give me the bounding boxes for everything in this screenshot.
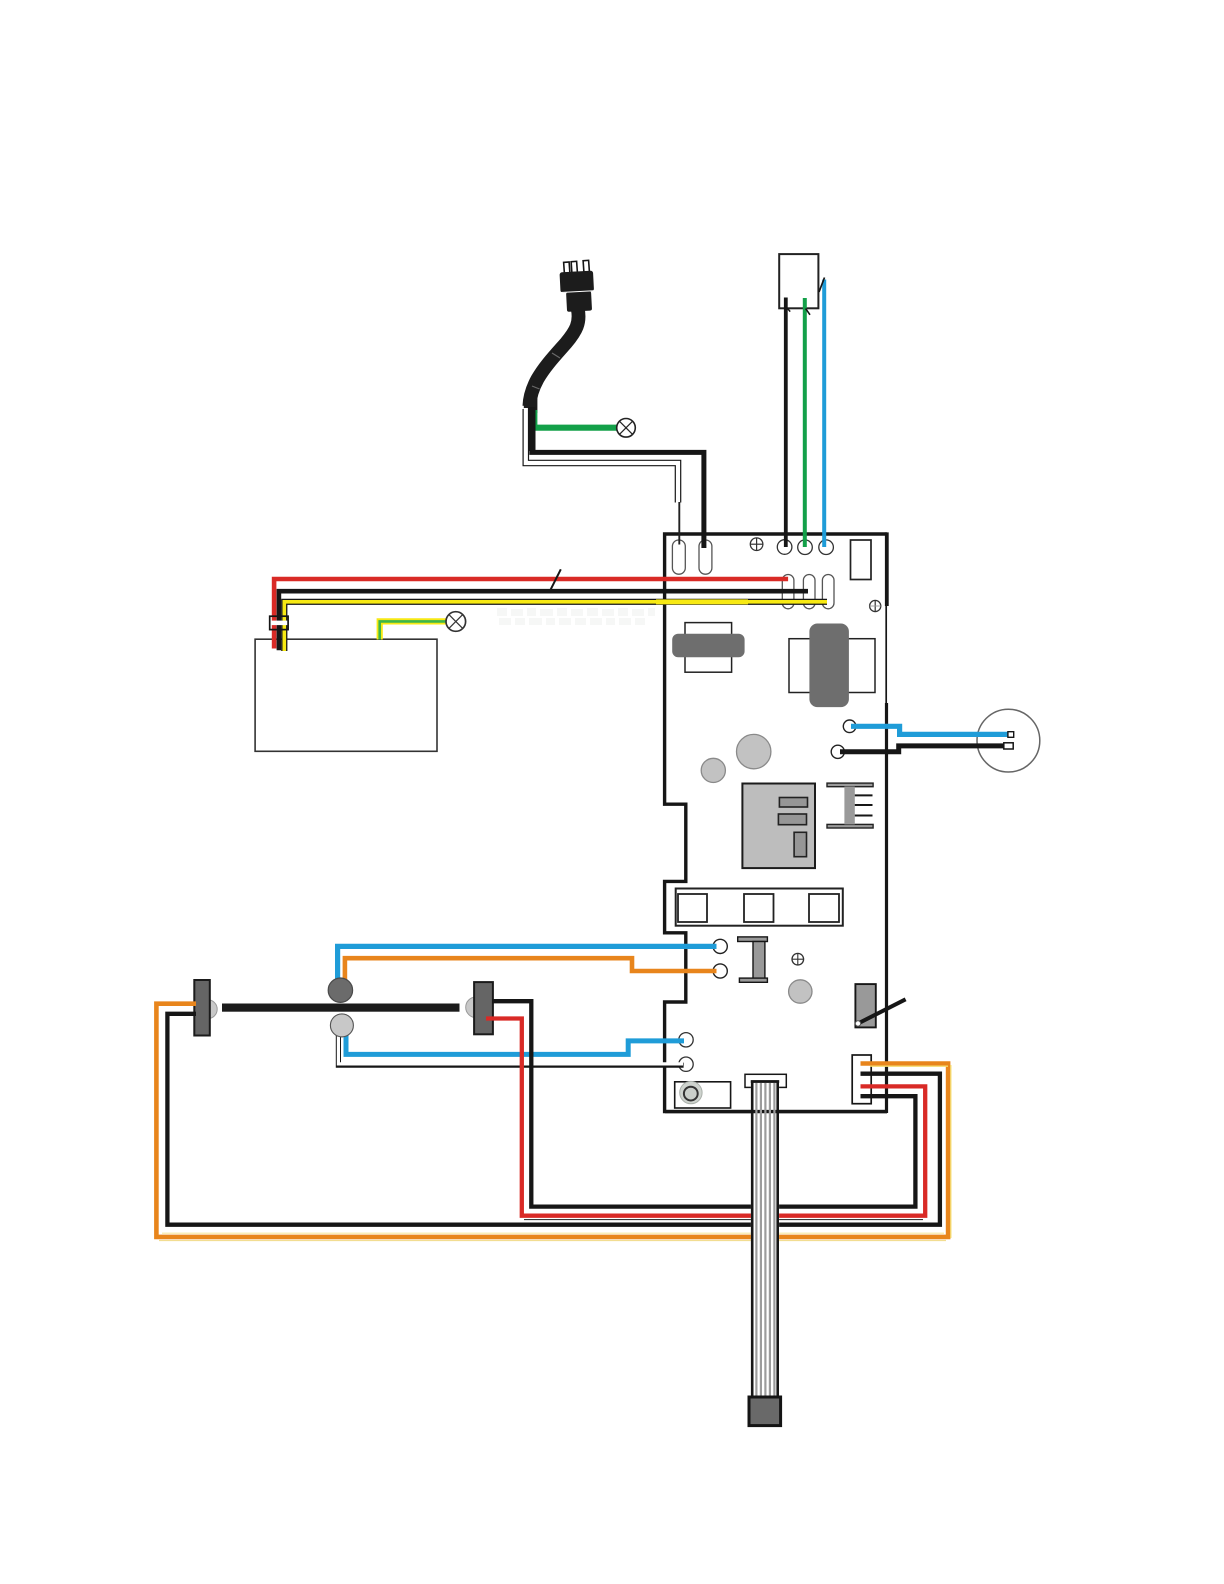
motor axle [222, 1004, 460, 1012]
yellow wire thick overlay segment [656, 599, 748, 604]
slot SL5 [822, 575, 834, 609]
slot SL2 [699, 540, 712, 574]
ribbon connector [745, 1074, 786, 1087]
white wire pad D4 to roller [338, 1034, 683, 1065]
ribbon top bar [751, 1080, 779, 1083]
connector X4 [852, 1055, 871, 1104]
gray circle C5 [789, 980, 812, 1003]
power cable [529, 309, 578, 406]
pad D1 [713, 939, 727, 953]
ribbon end cap [749, 1397, 781, 1426]
black wire tip [1004, 743, 1013, 749]
ribbon edges [751, 1081, 754, 1400]
indicator lamp L2 [446, 612, 466, 632]
red wire harness [274, 579, 788, 649]
yellow wire harness [284, 602, 827, 651]
ribbon cable background [751, 1080, 779, 1425]
screw S2 [869, 600, 881, 612]
blue wire to speaker [851, 726, 1010, 734]
ground wire yellow-green [380, 621, 446, 639]
pad A2 [798, 540, 813, 555]
board right edge middle thin [885, 606, 887, 703]
cable tip [524, 399, 538, 414]
slash mark on harness [550, 569, 561, 591]
motor left bracket [194, 980, 210, 1036]
white wire from cable to slot SL1 [526, 409, 678, 503]
speaker circle [977, 709, 1040, 772]
pad B1 [843, 720, 856, 733]
pin header P2 [827, 783, 873, 787]
encoder wheel dark [328, 978, 352, 1002]
red wire loop from right bracket [486, 1019, 925, 1216]
thick black wire from cable to slot SL2 [532, 408, 704, 548]
screw S3 [792, 953, 804, 965]
blue wire tip [1008, 732, 1014, 738]
pad D2 [713, 964, 727, 978]
power plug P1 pins [564, 260, 590, 273]
board right edge upper [885, 532, 889, 606]
indicator lamp L1 [617, 419, 636, 438]
battery box [255, 639, 437, 751]
motor right hub [466, 997, 487, 1018]
black wire J1 to pad A1 [784, 298, 788, 548]
roller wheel gray [330, 1014, 353, 1037]
blue wire pad D1 to encoder [338, 946, 717, 980]
switch SW1 body [855, 984, 875, 1027]
switch SW1 lever [858, 999, 906, 1023]
switch SW1 pivot [855, 1021, 860, 1026]
motor left hub [198, 1000, 217, 1019]
power plug P1 body [557, 271, 597, 313]
connector J1 [779, 254, 818, 308]
transformer T2 [789, 639, 875, 693]
pad A3 [819, 540, 834, 555]
capacitor I-beam [738, 937, 768, 982]
capacitor gray circle small [701, 758, 725, 782]
slot SL3 [782, 575, 794, 609]
ribbon stripes [756, 1083, 774, 1398]
ghost watermark text [497, 608, 655, 625]
orange wire pad D2 to encoder [345, 958, 717, 980]
pad B2 [831, 745, 844, 758]
cable highlight dashes [552, 353, 560, 358]
blue wire pad D3 to roller [346, 1033, 684, 1054]
white wire thin lead into slot SL1 [678, 502, 680, 545]
capacitor gray circle big [737, 734, 771, 768]
screw S1 [750, 538, 763, 551]
black wire to speaker [840, 746, 1011, 752]
black wire harness [279, 591, 808, 650]
relay block K1 [676, 889, 843, 926]
orange wire outline [159, 1240, 946, 1242]
pad A1 [777, 540, 792, 555]
motor right bracket [474, 982, 493, 1034]
blue wire J1 to pad A3 [822, 280, 826, 548]
green wire to indicator L1 [534, 410, 616, 428]
orange wire loop [156, 1004, 948, 1237]
tick mark on black wire [787, 308, 790, 311]
buzzer plate [675, 1082, 731, 1108]
buzzer disc [680, 1081, 702, 1103]
transformer T1 [685, 623, 732, 673]
red wire outline [524, 1219, 923, 1221]
inline connector C1 [267, 621, 290, 626]
pad D3 [679, 1033, 693, 1047]
board bottom edge over ribbon [665, 1110, 887, 1113]
black wire loop from right bracket top [492, 1001, 915, 1206]
green wire J1 to pad A2 [803, 298, 807, 547]
tick mark on blue wire [819, 278, 825, 293]
pad D4 [679, 1057, 693, 1071]
IC U1 [742, 784, 815, 869]
board right edge lower [885, 703, 888, 1113]
black wire loop from left bracket [167, 1014, 940, 1225]
board outline (control PCB) [665, 534, 887, 1112]
component box top right [851, 540, 872, 580]
slot SL1 [672, 540, 685, 574]
slot SL4 [803, 575, 815, 609]
tick mark on green wire [806, 309, 810, 315]
